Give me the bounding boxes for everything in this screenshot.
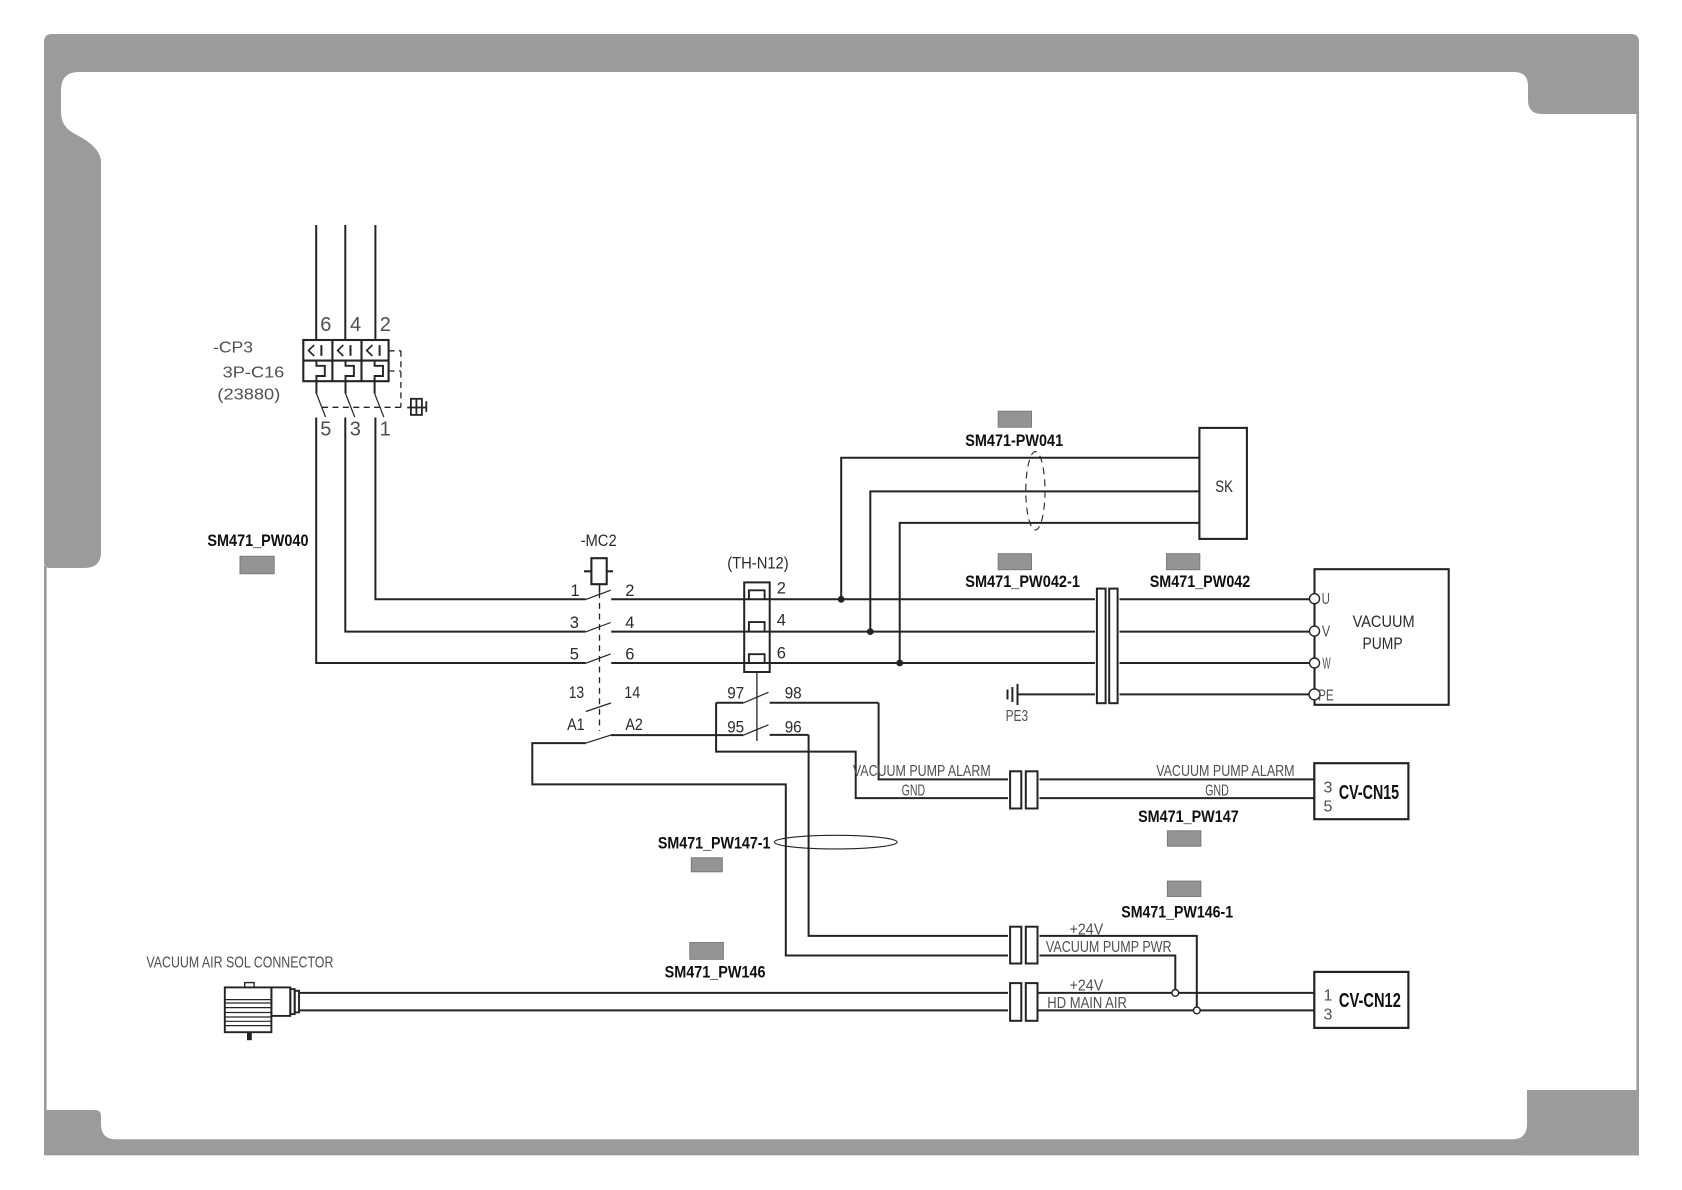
cable connector pair SM471_PW042 [1095, 589, 1120, 704]
svg-text:4: 4 [350, 314, 361, 336]
svg-text:1: 1 [571, 582, 580, 600]
svg-text:SM471-PW041: SM471-PW041 [965, 431, 1063, 450]
svg-text:PE3: PE3 [1006, 708, 1029, 725]
svg-text:13: 13 [569, 684, 585, 702]
svg-text:1: 1 [1324, 988, 1333, 1005]
wire PE3 to pump PE [1018, 693, 1310, 695]
svg-text:SM471_PW146: SM471_PW146 [665, 963, 766, 982]
svg-text:6: 6 [625, 646, 634, 664]
svg-text:5: 5 [320, 419, 331, 441]
svg-text:A2: A2 [625, 716, 643, 734]
TH-N12 trip rod [756, 672, 758, 741]
svg-text:PUMP: PUMP [1363, 635, 1403, 653]
TH-N12 wires through box [744, 599, 770, 663]
svg-text:SM471_PW042-1: SM471_PW042-1 [965, 572, 1080, 591]
MC2 pin labels [567, 582, 643, 734]
svg-text:2: 2 [380, 314, 391, 336]
svg-text:SM471_PW040: SM471_PW040 [207, 531, 308, 550]
svg-text:(23880): (23880) [217, 387, 280, 404]
thermal relay TH-N12 box [744, 582, 770, 672]
tap node circle on +24V wire [1172, 990, 1179, 997]
svg-text:95: 95 [727, 719, 744, 737]
wire 97 to alarm GND [716, 703, 1010, 798]
svg-text:GND: GND [902, 783, 926, 800]
gray marker SM471-PW041 [998, 411, 1031, 427]
vacuum air sol connector symbol [225, 983, 299, 1041]
cable connector pair SM471_PW147 [1008, 771, 1040, 808]
MC2 actuator dashed link [599, 592, 601, 731]
svg-text:96: 96 [785, 719, 802, 737]
circuit breaker CP3 body [303, 340, 388, 381]
wire HD main air return to CV-CN12 pin3 [1038, 1009, 1315, 1011]
MC2 aux contact 13-14 [586, 703, 611, 712]
wire contact 2 to TH-N12 [611, 598, 744, 600]
CV-CN15 pin labels 3 5 [1324, 780, 1333, 816]
alarm contact 95-96 [611, 725, 809, 735]
svg-text:5: 5 [570, 646, 579, 664]
svg-text:98: 98 [785, 684, 802, 702]
wire phase L2 (pin 4) vertical into breaker [344, 225, 346, 340]
tap node circle on return wire [1193, 1007, 1200, 1014]
alarm contact 97-98 [716, 692, 879, 703]
svg-text:VACUUM PUMP ALARM: VACUUM PUMP ALARM [853, 763, 991, 780]
pump terminal W [1310, 658, 1320, 668]
gray marker SM471_PW042-1 [998, 554, 1031, 570]
svg-text:2: 2 [777, 580, 786, 598]
gray marker SM471_PW040 [240, 556, 274, 573]
wire SK lead 1 [841, 458, 1199, 600]
junction dot wire2/SK [838, 596, 845, 603]
wire sol connector +24V (HD main air) [299, 992, 1010, 994]
svg-text:PE: PE [1318, 687, 1334, 704]
svg-text:3: 3 [1324, 1007, 1333, 1024]
pump terminal PE [1309, 689, 1320, 700]
terminal labels U V W PE [1318, 591, 1334, 704]
svg-text:VACUUM AIR SOL CONNECTOR: VACUUM AIR SOL CONNECTOR [146, 954, 333, 971]
junction dot wire4/SK [867, 628, 874, 635]
svg-text:14: 14 [624, 684, 640, 702]
wire +24V pump power right of connector [1038, 936, 1197, 1007]
junction dot wire6/SK [896, 660, 903, 667]
CV-CN12 pin labels 1 3 [1324, 988, 1333, 1024]
svg-text:V: V [1322, 623, 1331, 640]
gray marker SM471_PW146 [690, 943, 724, 960]
svg-text:97: 97 [727, 684, 744, 702]
pump terminal V [1310, 626, 1320, 636]
breaker switch blades [316, 381, 383, 417]
SK box [1199, 428, 1247, 539]
gray marker SM471_PW042 [1167, 554, 1200, 570]
wire alarm GND to CV-CN15 pin5 [1038, 797, 1315, 799]
MC2 main contact 1-2 [586, 590, 611, 599]
wire V phase to pump [770, 631, 1310, 633]
svg-text:4: 4 [777, 611, 786, 629]
svg-text:2: 2 [625, 582, 634, 600]
connector CV-CN15 box [1314, 763, 1408, 819]
wire breaker pin1 to MC2 contact 1 [375, 418, 585, 600]
contact labels 97 98 95 96 [727, 684, 802, 736]
breaker handle icon [407, 399, 426, 415]
wire W phase to pump [770, 662, 1310, 664]
svg-text:SM471_PW147: SM471_PW147 [1138, 807, 1239, 826]
wire +24V HD main air to CV-CN12 pin1 [1038, 992, 1315, 994]
cable ellipse SM471_PW147-1 [774, 835, 897, 849]
svg-text:3: 3 [1324, 780, 1333, 797]
svg-text:A1: A1 [567, 716, 585, 734]
svg-text:+24V: +24V [1070, 922, 1104, 939]
svg-text:SK: SK [1215, 478, 1233, 496]
breaker thermal overload hooks [316, 361, 383, 381]
svg-text:6: 6 [320, 314, 331, 336]
wire pump power return right of connector [1038, 956, 1176, 990]
wire SK lead 3 [900, 523, 1200, 663]
svg-text:3P-C16: 3P-C16 [223, 365, 285, 382]
connector CV-CN12 box [1314, 972, 1408, 1028]
cable connector pair SM471_PW146 (HD) [1008, 983, 1040, 1021]
wire 96 to +24V pump power [809, 735, 1011, 936]
svg-text:HD MAIN AIR: HD MAIN AIR [1047, 995, 1127, 1012]
svg-text:CV-CN15: CV-CN15 [1339, 782, 1399, 804]
breaker pole symbols < I [309, 345, 380, 356]
svg-text:VACUUM PUMP PWR: VACUUM PUMP PWR [1046, 939, 1172, 956]
svg-text:3: 3 [350, 419, 361, 441]
svg-text:VACUUM PUMP ALARM: VACUUM PUMP ALARM [1156, 763, 1294, 780]
wire sol connector return [299, 1009, 1010, 1011]
wire phase L1 (pin 2) vertical into breaker [374, 225, 376, 340]
TH-N12 pin labels 2 4 6 [777, 580, 786, 663]
contactor MC2 coil [584, 558, 613, 592]
svg-text:SM471_PW042: SM471_PW042 [1150, 572, 1251, 591]
svg-text:CV-CN12: CV-CN12 [1339, 990, 1401, 1012]
svg-text:4: 4 [625, 614, 634, 632]
wire contact 4 to TH-N12 [611, 631, 744, 633]
MC2 main contact 3-4 [586, 623, 611, 632]
svg-text:SM471_PW146-1: SM471_PW146-1 [1121, 902, 1233, 921]
svg-text:1: 1 [380, 419, 391, 441]
pump terminal U [1310, 594, 1320, 604]
gray marker SM471_PW146-1 [1167, 881, 1201, 896]
wire SK lead 2 [870, 491, 1199, 631]
breaker trip linkage (dashed) [320, 351, 401, 408]
svg-text:5: 5 [1324, 799, 1333, 816]
MC2 main contact 5-6 [586, 654, 611, 663]
svg-text:6: 6 [777, 645, 786, 663]
wire U phase to pump [770, 598, 1310, 600]
svg-text:3: 3 [570, 614, 579, 632]
ground symbol PE3 [1008, 684, 1018, 705]
svg-text:U: U [1322, 591, 1330, 608]
svg-text:GND: GND [1205, 783, 1229, 800]
breaker pin labels 5 3 1 [320, 419, 390, 441]
gray marker SM471_PW147-1 [691, 858, 722, 872]
cable connector pair SM471_PW146-1 [1008, 927, 1040, 964]
wire contact 6 to TH-N12 [611, 662, 744, 664]
svg-text:-CP3: -CP3 [213, 340, 253, 357]
wire breaker pin5 to MC2 contact 5 [316, 418, 585, 664]
wire A1 to pump-power return [532, 743, 1010, 955]
svg-text:(TH-N12): (TH-N12) [727, 555, 789, 573]
svg-text:+24V: +24V [1070, 978, 1104, 995]
wire phase L3 (pin 6) vertical into breaker [315, 225, 317, 340]
wire breaker pin3 to MC2 contact 3 [345, 418, 585, 632]
svg-text:SM471_PW147-1: SM471_PW147-1 [658, 833, 771, 852]
TH-N12 heater elements [749, 590, 765, 663]
MC2 coil contact A1-A2 blade [586, 735, 611, 743]
svg-text:-MC2: -MC2 [581, 532, 617, 550]
svg-text:VACUUM: VACUUM [1353, 613, 1415, 631]
cable ellipse SM471-PW041 [1026, 452, 1045, 530]
svg-text:W: W [1322, 656, 1331, 673]
vacuum pump box [1315, 569, 1449, 705]
breaker pin labels 6 4 2 [320, 314, 391, 336]
wire vacuum pump alarm to CV-CN15 pin3 [1038, 778, 1315, 780]
wire 98 to vacuum pump alarm [879, 703, 1011, 780]
gray marker SM471_PW147 [1167, 831, 1201, 846]
